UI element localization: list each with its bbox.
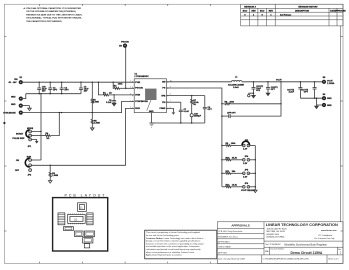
svg-text:1500pF: 1500pF bbox=[194, 116, 202, 118]
svg-text:1.00M: 1.00M bbox=[52, 175, 58, 177]
IC U1 LTC3616EUDC bbox=[130, 74, 171, 113]
svg-text:REVISION HISTORY: REVISION HISTORY bbox=[298, 6, 318, 8]
svg-text:ON A NORMAL, TYPICAL PCB, WITH: ON A NORMAL, TYPICAL PCB, WITH SHORT TRA… bbox=[26, 17, 82, 20]
svg-text:GND: GND bbox=[327, 98, 332, 100]
svg-text:1st Release: 1st Release bbox=[280, 14, 292, 17]
turret GND E6 bbox=[322, 94, 332, 100]
svg-text:APPROVALS: APPROVALS bbox=[218, 240, 230, 243]
wire output ground rail bbox=[300, 97, 322, 99]
wire FB line from pin to ladder bbox=[167, 88, 222, 187]
zone tick marks left/right bbox=[4, 37, 343, 232]
approvals column bbox=[217, 227, 264, 229]
svg-text:for use with Linear Technology: for use with Linear Technology parts. bbox=[146, 234, 180, 237]
svg-text:1.5V: 1.5V bbox=[243, 163, 248, 165]
resistor R8 FB top bbox=[222, 101, 281, 104]
feedback ladder row 3: resistor R11 + jumper JP5 bbox=[222, 170, 255, 179]
resistor R5 divider lower 1.00M bbox=[91, 113, 100, 128]
ground symbol input bbox=[28, 106, 32, 111]
svg-text:DESCRIPTION: DESCRIPTION bbox=[295, 11, 310, 13]
capacitor COUT1 bbox=[252, 82, 264, 93]
svg-text:PGND: PGND bbox=[159, 108, 165, 110]
node dots on VIN rail bbox=[39, 82, 114, 83]
IC pin numbers bbox=[130, 81, 171, 109]
jumper JP1 MODE (BURST / PULSE SKIP) bbox=[12, 128, 33, 148]
svg-text:PULSE SKIP: PULSE SKIP bbox=[12, 138, 25, 140]
ground symbol PGND bbox=[172, 112, 176, 114]
svg-text:PGOOD: PGOOD bbox=[121, 41, 129, 43]
capacitor COUT5 bbox=[301, 82, 317, 98]
svg-text:Customer Notice: Linear Techno: Customer Notice: Linear Technology has m… bbox=[146, 237, 204, 240]
svg-text:OPT: OPT bbox=[53, 90, 58, 92]
wire JP1 top pin to ground bus and down to JP2 bbox=[32, 94, 42, 132]
svg-text:REV: REV bbox=[251, 11, 256, 13]
svg-text:LTC Confidential -: LTC Confidential - bbox=[318, 234, 333, 237]
capacitor C7 column bbox=[167, 102, 190, 123]
node SVIN junction bbox=[113, 94, 114, 95]
wire jumper common rail bbox=[254, 146, 256, 191]
capacitor CFF bbox=[222, 112, 236, 118]
wire SYNC/MODE rail bbox=[23, 101, 134, 112]
svg-text:OPT: OPT bbox=[64, 90, 69, 92]
wire RUN rail bbox=[32, 108, 135, 165]
ground symbol RUN bbox=[48, 181, 52, 184]
svg-text:The LTC3616EUDC: The LTC3616EUDC bbox=[265, 244, 282, 246]
turret GND E3 bbox=[11, 104, 23, 108]
svg-text:RUN: RUN bbox=[135, 108, 140, 110]
resistor R1 VIN to SVIN bbox=[98, 82, 134, 96]
title block bbox=[217, 222, 343, 264]
node COUT1 gnd junction bbox=[253, 93, 254, 94]
ground symbol COUT1 bbox=[252, 93, 256, 98]
wire VIN rail bbox=[23, 81, 134, 83]
svg-text:1Ω: 1Ω bbox=[109, 93, 112, 95]
wire ITH line bbox=[167, 95, 205, 97]
svg-text:APPROVED: APPROVED bbox=[334, 10, 346, 13]
svg-text:however, it remains the custom: however, it remains the customers respon… bbox=[146, 242, 204, 245]
pcb cap cluster bbox=[74, 231, 83, 237]
resistor R3 divider upper 1.00M bbox=[91, 82, 99, 112]
IC pad gnd diagonal bbox=[147, 100, 151, 111]
ground symbol C5 bbox=[112, 103, 116, 105]
svg-text:Monolithic Synchronous Buck Re: Monolithic Synchronous Buck Regulator bbox=[285, 243, 328, 246]
svg-text:and reliable operation in the: and reliable operation in the actual app… bbox=[146, 245, 200, 248]
svg-text:A. CIN IS AN OPTIONAL CAPACITO: A. CIN IS AN OPTIONAL CAPACITOR. IT IS S… bbox=[24, 7, 82, 10]
turret GND E7 bbox=[322, 103, 332, 107]
svg-text:substitution and printed circu: substitution and printed circuit board l… bbox=[146, 248, 201, 251]
capacitor C5 on SVIN bbox=[106, 95, 116, 104]
feedback ladder row 2: resistor R10 + jumper JP4 bbox=[222, 155, 255, 165]
svg-text:PCB DES. Rudy Banachelite: PCB DES. Rudy Banachelite bbox=[218, 230, 242, 233]
svg-text:Sheet 1 of 1: Sheet 1 of 1 bbox=[328, 258, 338, 261]
svg-text:1.0uH: 1.0uH bbox=[233, 87, 239, 89]
svg-text:design a circuit that meets cu: design a circuit that meets customer-sup… bbox=[146, 240, 201, 243]
turret GND E2 bbox=[11, 96, 23, 100]
wire JP1 bottom pin to ground bbox=[32, 140, 37, 142]
svg-text:BURST: BURST bbox=[16, 133, 24, 135]
revision table bbox=[241, 4, 347, 26]
zone marker dot left border bbox=[3, 122, 5, 124]
svg-text:ENGINEER Tom Gross: ENGINEER Tom Gross bbox=[218, 236, 238, 238]
capacitor CIN bbox=[37, 82, 47, 94]
svg-text:APPROVALS: APPROVALS bbox=[231, 224, 249, 228]
svg-text:ECO: ECO bbox=[260, 11, 265, 13]
wire VOUT rail bbox=[242, 81, 322, 83]
resistor R4 (mode) bbox=[32, 112, 61, 140]
feedback ladder row 4: resistor R12 + jumper JP6 bbox=[222, 183, 256, 192]
IC pin tick marks bbox=[133, 81, 168, 109]
svg-text:OPT: OPT bbox=[304, 91, 309, 93]
svg-text:ON THE DC1159A TO DAMPEN THE (: ON THE DC1159A TO DAMPEN THE (POSSIBLE) bbox=[26, 10, 76, 13]
pcb L1 bbox=[78, 203, 87, 212]
zone tick marks top bbox=[40, 4, 211, 6]
ground symbol divider bbox=[91, 128, 95, 130]
svg-text:RINGING VOLTAGE DUE TO THE LON: RINGING VOLTAGE DUE TO THE LONG INPUT LE… bbox=[26, 13, 82, 16]
capacitor C3 bbox=[79, 82, 89, 94]
svg-text:GND: GND bbox=[327, 105, 332, 107]
svg-text:PVIN: PVIN bbox=[135, 82, 140, 84]
svg-text:1.2V/8A: 1.2V/8A bbox=[327, 82, 335, 85]
svg-text:SW: SW bbox=[162, 82, 165, 84]
svg-text:N/A: N/A bbox=[265, 250, 269, 253]
svg-text:GND: GND bbox=[11, 104, 16, 106]
node PGOOD junction bbox=[125, 88, 126, 89]
svg-text:PGOOD: PGOOD bbox=[135, 88, 143, 90]
svg-text:4V - 14V: 4V - 14V bbox=[9, 81, 18, 84]
svg-text:(408)434-0507 (FAX): (408)434-0507 (FAX) bbox=[267, 235, 285, 238]
svg-text:1.00M: 1.00M bbox=[94, 122, 100, 124]
pcb connector right bbox=[87, 213, 93, 225]
svg-text:APP ENG.: APP ENG. bbox=[218, 252, 227, 255]
note A text block bbox=[24, 7, 83, 23]
feedback ladder row 1: resistor R9 + jumper JP3 bbox=[222, 140, 255, 151]
turret VIN E1 bbox=[9, 77, 23, 84]
IC exposed pad bbox=[145, 89, 156, 100]
ground symbol COUT2 bbox=[266, 93, 270, 95]
jumper shunt JP2 bbox=[25, 158, 29, 167]
pcb resistor block R bbox=[64, 227, 74, 231]
svg-text:REVISION #: REVISION # bbox=[244, 6, 256, 8]
svg-text:1.2V: 1.2V bbox=[243, 149, 248, 151]
svg-text:C:\ORCADWORK\APPLIED\DC1159A\D: C:\ORCADWORK\APPLIED\DC1159A\DC1159A_REV… bbox=[263, 258, 310, 261]
disclaimer box bbox=[145, 230, 217, 259]
svg-text:1.8V: 1.8V bbox=[243, 176, 248, 178]
svg-text:VFB: VFB bbox=[161, 95, 166, 97]
svg-text:Rev: Rev bbox=[338, 249, 341, 251]
jumper shunt JP1 bbox=[26, 130, 30, 138]
svg-text:OPT: OPT bbox=[231, 112, 236, 114]
svg-text:1.00M: 1.00M bbox=[93, 101, 99, 103]
turret PGOOD E9 bbox=[119, 41, 129, 47]
wire bus drop to GND turret bbox=[23, 94, 26, 99]
wire SW rail bbox=[167, 81, 232, 83]
svg-text:Demo Circuit 1159A: Demo Circuit 1159A bbox=[291, 251, 323, 255]
wire JP2 top pin to ground drop bbox=[32, 159, 42, 161]
svg-text:VIN: VIN bbox=[14, 79, 18, 81]
inductor L1 bbox=[228, 77, 244, 89]
zone tick marks bottom bbox=[40, 262, 211, 264]
IC bottom gnd stub bbox=[151, 113, 153, 123]
capacitor COUT2 bbox=[266, 82, 278, 93]
svg-text:For Customer Use Only: For Customer Use Only bbox=[315, 237, 335, 240]
ground symbol output bbox=[315, 105, 319, 109]
turret SYNC/MODE E4 bbox=[3, 111, 23, 115]
wire input ground bus bbox=[26, 93, 81, 95]
svg-text:THE CAPACITOR IS NOT NEEDED.: THE CAPACITOR IS NOT NEEDED. bbox=[26, 20, 62, 23]
wire PGOOD vertical bbox=[125, 48, 127, 89]
wire VOUT sense drop bbox=[231, 82, 281, 116]
svg-text:45.3k: 45.3k bbox=[232, 157, 238, 160]
svg-text:www.linear.com: www.linear.com bbox=[321, 229, 337, 232]
svg-text:LTC3616EUDC: LTC3616EUDC bbox=[135, 76, 150, 78]
svg-text:OPT: OPT bbox=[271, 89, 276, 91]
wire PGND pin to ground bbox=[167, 108, 174, 112]
svg-text:This circuit is proprietary to: This circuit is proprietary to Linear Te… bbox=[146, 231, 200, 234]
svg-text:PCB LAYOUT: PCB LAYOUT bbox=[65, 193, 106, 197]
resistor R2 PGOOD pull-up bbox=[113, 82, 134, 89]
svg-text:ON: ON bbox=[16, 160, 20, 162]
svg-text:0.1uF: 0.1uF bbox=[106, 102, 112, 104]
capacitor C1 bbox=[48, 82, 58, 94]
wire analog ground rail bbox=[152, 122, 205, 124]
svg-text:ECO: ECO bbox=[243, 11, 248, 13]
svg-text:PG: PG bbox=[162, 88, 165, 90]
pcb U1 bbox=[68, 214, 86, 223]
svg-text:Date: Tuesday, March 02, 2004: Date: Tuesday, March 02, 2004 bbox=[218, 258, 244, 261]
PCB layout box bbox=[53, 198, 108, 251]
wire GND E3 to ground bbox=[23, 105, 30, 107]
svg-text:SYNC/MODE: SYNC/MODE bbox=[3, 113, 16, 115]
svg-text:25V: 25V bbox=[42, 91, 46, 93]
test point TP1 bbox=[248, 93, 254, 97]
resistor R7 ITH 32.4k bbox=[191, 96, 200, 114]
turret VOUT E5 bbox=[322, 77, 335, 85]
svg-text:REV: REV bbox=[269, 11, 274, 13]
svg-text:13.3k: 13.3k bbox=[232, 185, 238, 187]
ground symbol IC bbox=[149, 123, 153, 127]
jumper shunt JP3 bbox=[242, 141, 250, 145]
pcb connector left bbox=[58, 213, 65, 225]
jumper JP2 RUN (ON/OFF) bbox=[15, 157, 32, 177]
capacitor C2 bbox=[60, 82, 70, 94]
svg-text:MILPITAS, CA. 95035: MILPITAS, CA. 95035 bbox=[267, 230, 285, 233]
svg-text:2.2uF: 2.2uF bbox=[289, 91, 295, 93]
ground symbol JP1 bbox=[35, 141, 39, 144]
svg-text:SYNC/MODE: SYNC/MODE bbox=[135, 101, 148, 103]
svg-text:affect circuit performance or: affect circuit performance or reliabilit… bbox=[146, 251, 194, 254]
wire gnd rail drop bbox=[317, 98, 323, 105]
svg-text:GND: GND bbox=[11, 96, 16, 98]
svg-text:0Ω: 0Ω bbox=[47, 138, 50, 140]
svg-text:ITH: ITH bbox=[162, 102, 166, 104]
svg-text:Applications Engineering for a: Applications Engineering for assistance. bbox=[146, 254, 183, 257]
capacitor COUT4 bbox=[287, 82, 302, 98]
svg-text:GND: GND bbox=[149, 111, 154, 113]
ground symbol ladder bbox=[254, 190, 258, 192]
svg-text:1630 McCARTHY BLVD.: 1630 McCARTHY BLVD. bbox=[267, 228, 288, 231]
svg-text:SVIN: SVIN bbox=[135, 95, 140, 97]
svg-text:OPT: OPT bbox=[208, 109, 213, 111]
svg-text:25V: 25V bbox=[84, 91, 88, 93]
svg-text:CHECK MARK: CHECK MARK bbox=[218, 245, 231, 248]
capacitor C10 (circle style) bbox=[190, 114, 202, 123]
capacitor C9 column bbox=[203, 96, 213, 123]
svg-text:0.1uF: 0.1uF bbox=[184, 111, 190, 113]
svg-text:LINEAR TECHNOLOGY CORPORATION: LINEAR TECHNOLOGY CORPORATION bbox=[266, 223, 339, 227]
resistor R6 RUN pulldown 1.00M bbox=[49, 165, 58, 180]
